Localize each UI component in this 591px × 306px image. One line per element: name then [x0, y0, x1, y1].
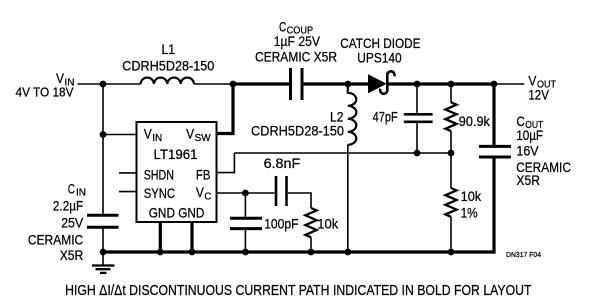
svg-text:16V: 16V: [516, 143, 539, 159]
svg-text:4V TO 18V: 4V TO 18V: [16, 86, 75, 100]
svg-text:V: V: [186, 126, 195, 142]
svg-text:2.2µF: 2.2µF: [53, 198, 83, 214]
IC U1 LT1961: [137, 122, 217, 222]
node CIN/ground rail: [100, 249, 107, 256]
wire GND pin 1 (bold): [159, 222, 162, 252]
node GND2 rail: [189, 249, 196, 256]
svg-text:UPS140: UPS140: [357, 50, 402, 66]
capacitor C3 100pF: [230, 193, 299, 252]
ground: [92, 252, 115, 273]
capacitor COUT: [479, 84, 571, 254]
diode D1 catch diode: [340, 35, 420, 94]
svg-text:C: C: [279, 18, 286, 34]
terminal VOUT label: [528, 73, 556, 103]
svg-text:100pF: 100pF: [264, 216, 298, 232]
wire GND pin 2 (bold): [190, 222, 193, 252]
svg-text:LT1961: LT1961: [154, 146, 198, 162]
node VC junction: [242, 190, 249, 197]
capacitor CCOUP: [255, 18, 337, 100]
wire SHDN stub: [119, 172, 137, 174]
wire diode to COUT node (bold): [387, 82, 495, 85]
wire FB line: [234, 152, 451, 154]
wire L1 to SW node: [194, 83, 233, 85]
svg-text:CDRH5D28-150: CDRH5D28-150: [251, 123, 344, 139]
node 47pF top: [414, 81, 421, 88]
wire VOUT stub: [496, 83, 525, 85]
capacitor C2 6.8nF: [264, 155, 301, 206]
svg-text:1%: 1%: [461, 205, 478, 221]
node L2/ground rail: [344, 249, 351, 256]
svg-text:HIGH ΔI/Δt DISCONTINUOUS CURRE: HIGH ΔI/Δt DISCONTINUOUS CURRENT PATH IN…: [65, 283, 532, 299]
node VIN pin junction: [100, 131, 107, 138]
svg-text:90.9k: 90.9k: [459, 113, 491, 129]
svg-text:V: V: [144, 126, 153, 142]
svg-text:FB: FB: [196, 167, 211, 183]
svg-text:SYNC: SYNC: [144, 185, 175, 201]
svg-text:10µF: 10µF: [516, 127, 543, 143]
svg-text:X5R: X5R: [516, 172, 540, 188]
svg-text:CDRH5D28-150: CDRH5D28-150: [122, 58, 214, 74]
svg-text:V: V: [56, 70, 65, 86]
wire bottom rail (bold): [103, 250, 496, 253]
svg-text:GND GND: GND GND: [149, 205, 205, 221]
node 90.9k top: [448, 81, 455, 88]
svg-text:CERAMIC X5R: CERAMIC X5R: [255, 49, 337, 65]
wire node to L1: [103, 83, 141, 85]
inductor L2: [251, 84, 356, 145]
node COUT top: [491, 81, 498, 88]
svg-text:25V: 25V: [61, 215, 84, 231]
wire VC to 6.8nF: [245, 192, 274, 194]
svg-text:47pF: 47pF: [373, 109, 398, 125]
capacitor CIN: [28, 135, 119, 263]
resistor R3 10k: [305, 208, 339, 252]
wire L2 to ground rail: [347, 145, 349, 252]
wire VIN input: [78, 83, 104, 85]
svg-text:12V: 12V: [528, 87, 549, 103]
wire VIN pin: [103, 134, 137, 136]
svg-text:SHDN: SHDN: [144, 167, 174, 183]
inductor L1: [122, 41, 214, 84]
svg-text:10k: 10k: [461, 188, 483, 204]
svg-text:L1: L1: [162, 41, 176, 57]
wire FB pin to FB line: [217, 153, 235, 173]
svg-text:SW: SW: [195, 133, 212, 144]
wire SW node down to VSW pin (bold): [217, 82, 234, 133]
wire 6.8nF to 10k: [288, 193, 311, 208]
node VIN junction: [100, 81, 107, 88]
node FB/90.9k: [448, 150, 455, 157]
node SW junction: [230, 81, 237, 88]
wire VIN node down to VIN pin: [102, 84, 104, 135]
svg-text:DN317 F04: DN317 F04: [506, 250, 541, 259]
capacitor 47pF: [373, 84, 433, 153]
svg-text:6.8nF: 6.8nF: [264, 155, 301, 171]
wire SYNC stub: [119, 191, 137, 193]
node FB/47pF: [414, 150, 421, 157]
node A junction CCOUP/L2/diode: [344, 81, 351, 88]
resistor R2 10k 1%: [445, 153, 482, 252]
node 10k1% bottom rail: [448, 249, 455, 256]
svg-text:10k: 10k: [317, 216, 339, 232]
svg-text:C: C: [204, 191, 211, 202]
wire VC pin: [217, 192, 246, 194]
wire CCOUP to node A (bold): [304, 82, 369, 85]
svg-text:CERAMIC: CERAMIC: [28, 232, 83, 248]
svg-text:X5R: X5R: [60, 247, 84, 263]
svg-text:C: C: [68, 181, 75, 197]
node GND1 rail: [157, 249, 164, 256]
wire SW rail to CCOUP (bold): [233, 82, 289, 85]
node 10k bottom rail: [308, 249, 315, 256]
node 100pF bottom rail: [242, 249, 249, 256]
svg-text:V: V: [196, 184, 205, 200]
svg-text:IN: IN: [152, 133, 162, 144]
terminal VIN label: [16, 70, 75, 100]
resistor R1 90.9k: [445, 84, 490, 153]
svg-text:1µF 25V: 1µF 25V: [274, 33, 321, 49]
